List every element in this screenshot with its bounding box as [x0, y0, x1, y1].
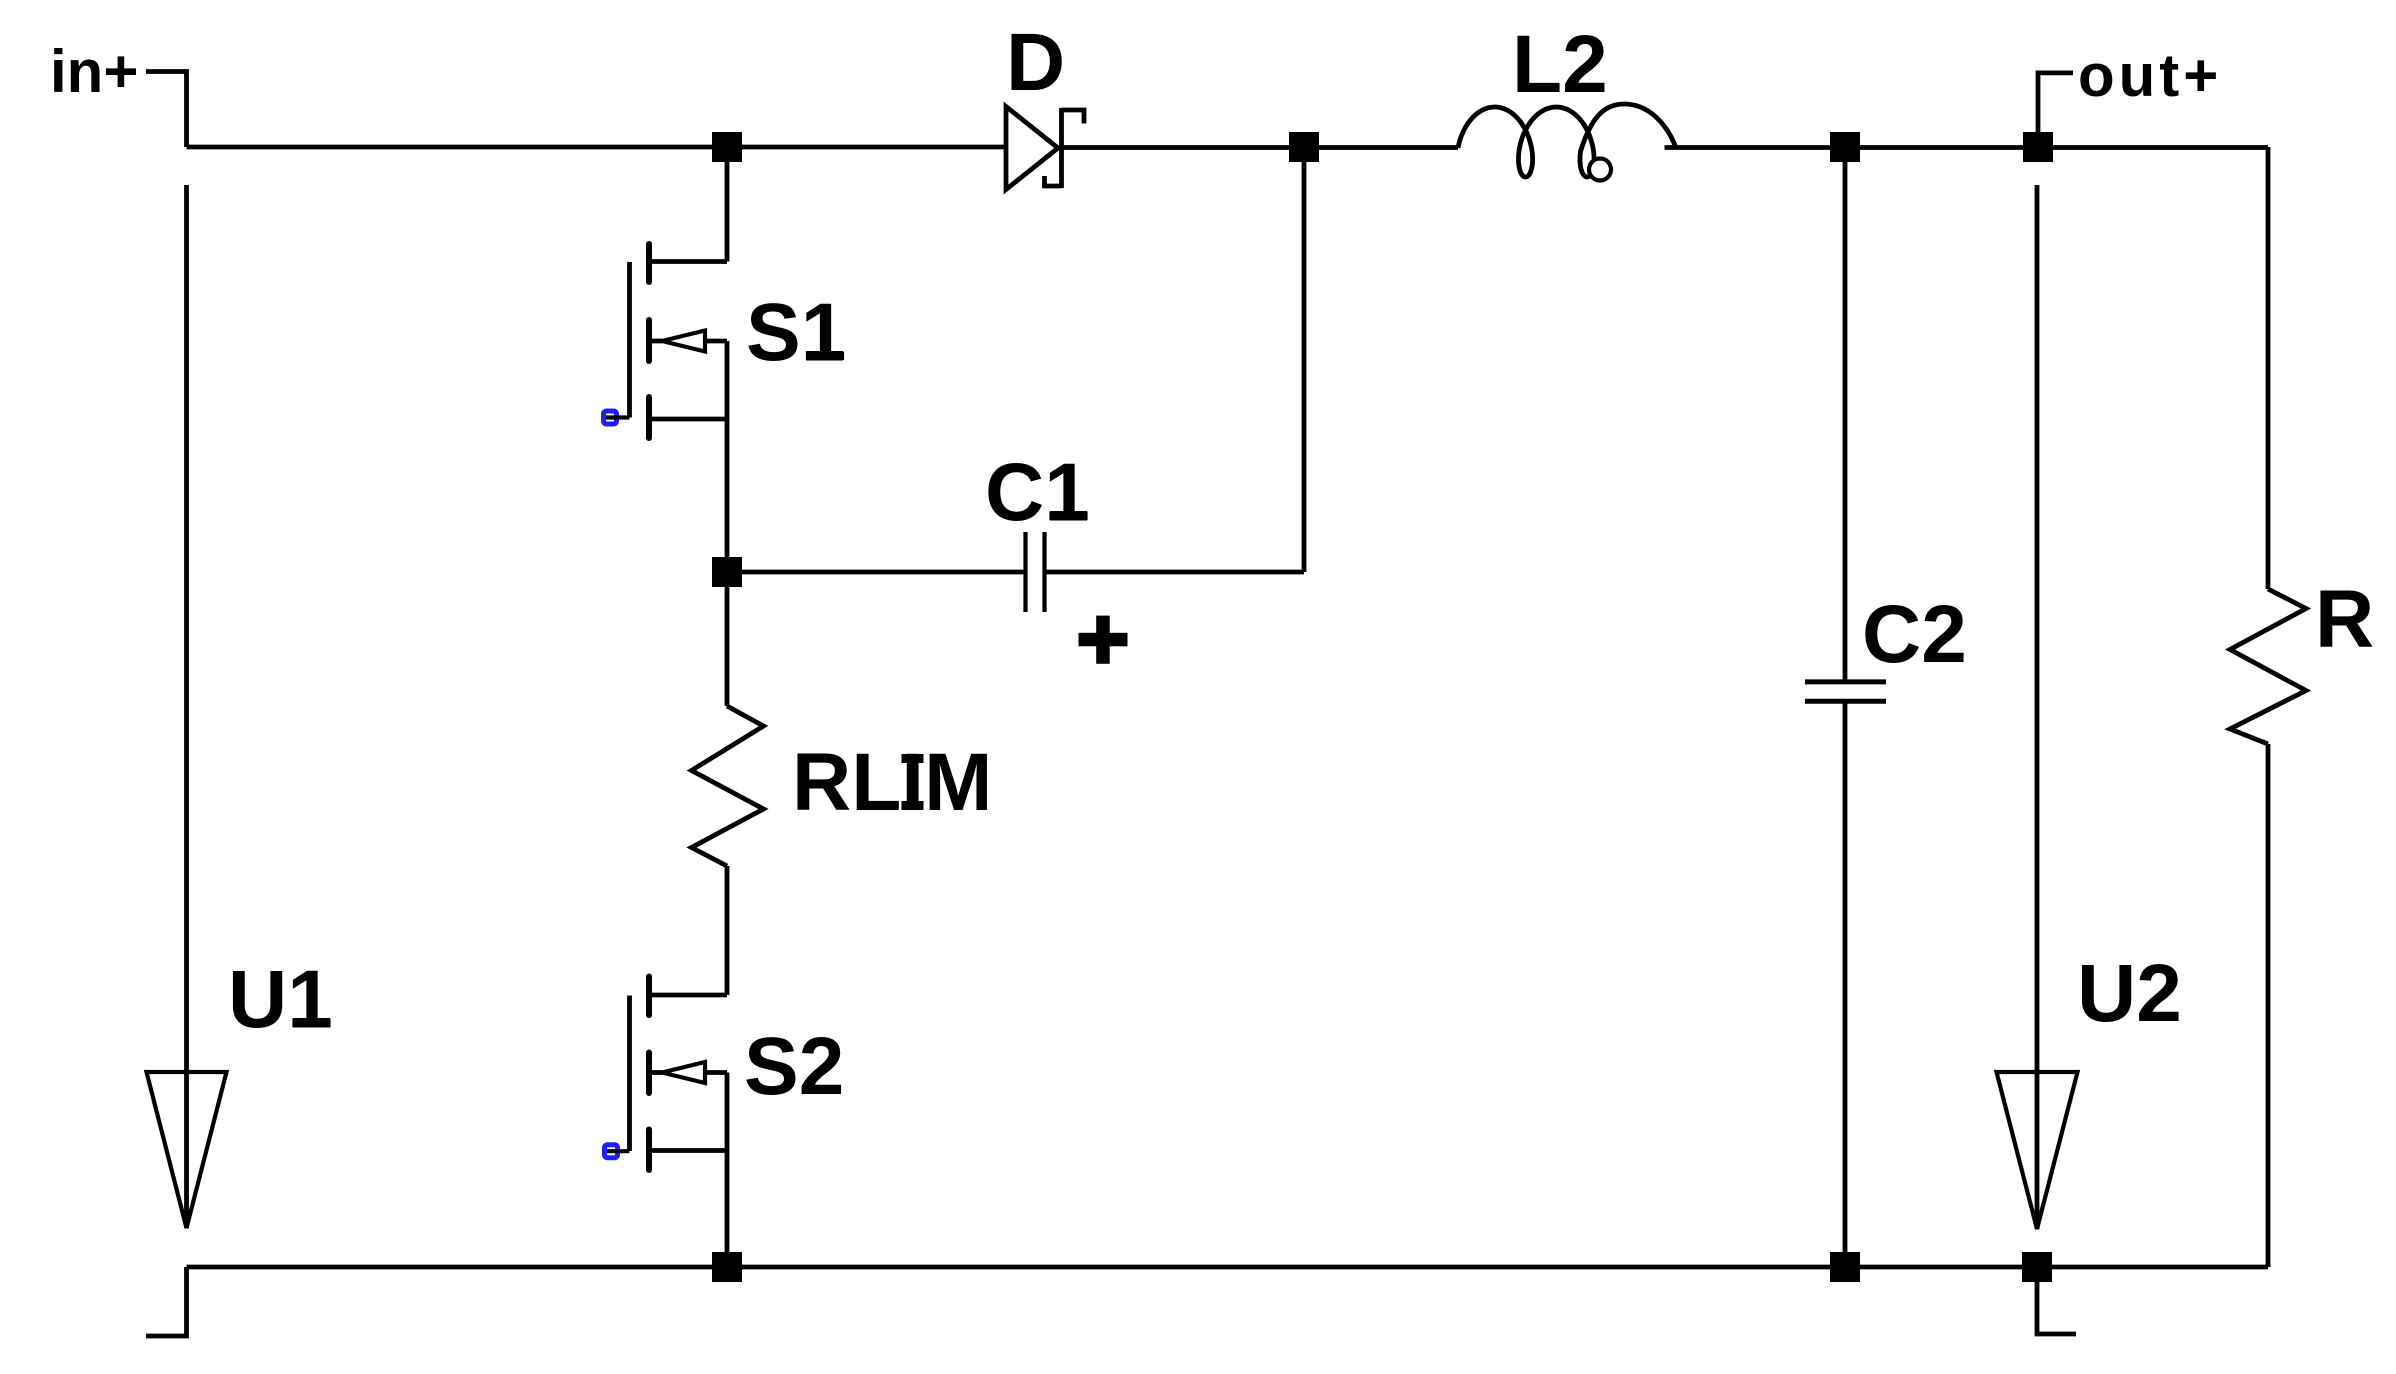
wire top rail left — [187, 145, 1007, 150]
junction E — [712, 557, 742, 587]
transistor S2 — [605, 977, 728, 1268]
svg-text:C1: C1 — [985, 447, 1090, 538]
junction A — [712, 132, 742, 162]
voltmeter U1 — [147, 185, 227, 1228]
junction C — [1830, 132, 1860, 162]
wire L2 to top-right corner — [1665, 145, 2269, 150]
transistor S1 — [604, 147, 728, 572]
svg-text:S1: S1 — [746, 287, 846, 378]
wire out+ stub — [2038, 73, 2073, 147]
wire diode to L2 — [1062, 145, 1458, 150]
svg-text:R: R — [2315, 574, 2374, 665]
inductor L2 — [1458, 104, 1676, 181]
junction D — [2023, 132, 2053, 162]
voltmeter U2 — [1997, 185, 2078, 1229]
junction F — [712, 1252, 742, 1282]
wire right rail bottom — [2266, 744, 2271, 1267]
svg-text:RLIM: RLIM — [792, 737, 992, 828]
svg-text:in+: in+ — [50, 38, 138, 105]
svg-text:out+: out+ — [2078, 42, 2222, 109]
svg-text:L2: L2 — [1512, 19, 1608, 110]
capacitor C2 — [1805, 147, 1886, 1267]
wire out- stub — [2037, 1267, 2076, 1334]
wire right rail top — [2266, 147, 2271, 589]
junction H — [2022, 1252, 2052, 1282]
wire bottom rail — [187, 1265, 2269, 1270]
wire in+ stub — [146, 72, 187, 148]
svg-text:S2: S2 — [744, 1021, 844, 1112]
diode D — [1006, 107, 1084, 190]
junction B — [1289, 132, 1319, 162]
junction G — [1830, 1252, 1860, 1282]
resistor R — [2230, 589, 2306, 744]
svg-text:U2: U2 — [2077, 948, 2182, 1039]
svg-text:U1: U1 — [228, 954, 333, 1045]
resistor RLIM — [692, 572, 764, 995]
capacitor C1 — [727, 147, 1304, 664]
svg-text:C2: C2 — [1862, 589, 1967, 680]
svg-text:D: D — [1006, 17, 1065, 108]
wire in- stub — [146, 1267, 187, 1336]
